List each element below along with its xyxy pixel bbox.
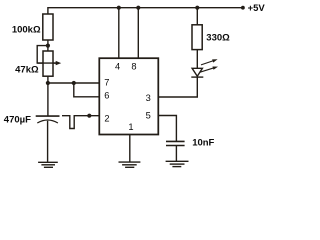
svg-text:330Ω: 330Ω — [206, 32, 230, 43]
svg-text:3: 3 — [146, 93, 151, 103]
svg-text:8: 8 — [131, 62, 136, 72]
svg-text:2: 2 — [104, 114, 109, 124]
svg-text:6: 6 — [104, 90, 109, 100]
svg-text:7: 7 — [104, 77, 109, 87]
svg-text:10nF: 10nF — [192, 138, 214, 149]
svg-text:470µF: 470µF — [4, 114, 31, 125]
svg-text:4: 4 — [115, 62, 120, 72]
svg-text:+5V: +5V — [248, 3, 266, 14]
svg-text:1: 1 — [128, 122, 133, 132]
svg-text:5: 5 — [146, 111, 151, 121]
svg-text:47kΩ: 47kΩ — [15, 65, 39, 76]
svg-text:100kΩ: 100kΩ — [12, 25, 41, 36]
